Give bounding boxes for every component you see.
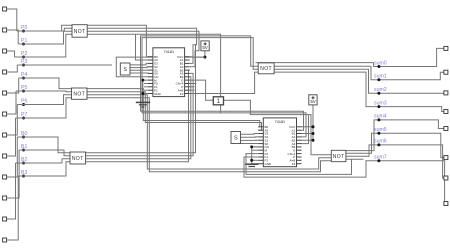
svg-text:P5: P5: [21, 85, 27, 91]
svg-text:sum4: sum4: [374, 114, 387, 120]
svg-text:sum1: sum1: [374, 74, 387, 80]
svg-text:NOT: NOT: [73, 92, 85, 98]
svg-text:F3: F3: [180, 92, 184, 96]
svg-text:GND: GND: [265, 162, 273, 166]
svg-text:74181: 74181: [275, 120, 286, 124]
svg-text:NOT: NOT: [74, 29, 86, 35]
svg-text:5V: 5V: [310, 99, 315, 104]
svg-text:S: S: [123, 67, 127, 73]
svg-text:sum0: sum0: [374, 60, 387, 66]
svg-text:P2: P2: [21, 51, 27, 57]
svg-text:sum3: sum3: [374, 100, 387, 106]
svg-text:P7: P7: [21, 112, 27, 118]
svg-text:sum5: sum5: [374, 127, 387, 133]
svg-text:B3: B3: [21, 170, 27, 176]
svg-text:P6: P6: [21, 98, 27, 104]
svg-text:B1: B1: [21, 144, 27, 150]
svg-text:74181: 74181: [164, 50, 175, 54]
svg-text:P1: P1: [21, 38, 27, 44]
svg-text:B0: B0: [21, 131, 27, 137]
svg-text:NOT: NOT: [72, 156, 84, 162]
svg-text:P4: P4: [21, 72, 27, 78]
svg-text:sum7: sum7: [374, 155, 387, 161]
svg-text:P0: P0: [21, 25, 27, 31]
svg-text:B2: B2: [21, 157, 27, 163]
svg-text:NOT: NOT: [333, 154, 345, 160]
svg-text:S: S: [234, 136, 238, 142]
svg-text:P3: P3: [21, 59, 27, 65]
svg-text:NOT: NOT: [260, 66, 272, 72]
svg-text:5V: 5V: [202, 45, 207, 50]
svg-text:sum6: sum6: [374, 139, 387, 145]
svg-text:sum2: sum2: [374, 87, 387, 93]
svg-text:F3: F3: [292, 162, 296, 166]
svg-text:GND: GND: [154, 92, 162, 96]
